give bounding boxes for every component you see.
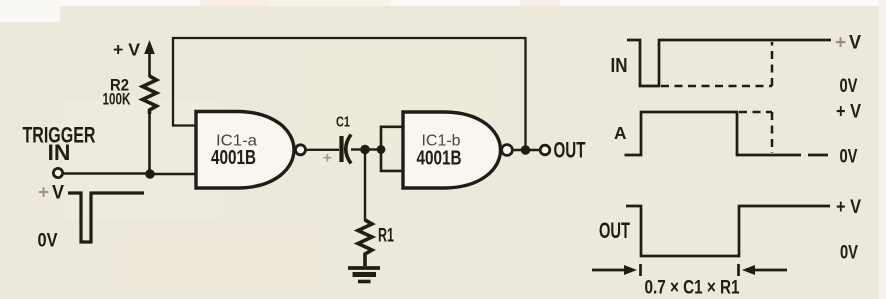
svg-text:0V: 0V [840,75,858,97]
wire node A down to R1 [364,150,366,222]
wire trigger terminal to junction [63,172,150,174]
wire R2 bottom to trigger junction [148,113,151,174]
OUT terminal [540,145,550,155]
output junction node [521,145,531,155]
wire C1 to node A [351,148,365,150]
svg-text:+ V: + V [113,40,140,60]
wire junction to IC1-a input B [150,173,196,175]
svg-text:+ V: + V [836,196,861,218]
+V supply arrow [144,40,155,77]
svg-text:0V: 0V [840,146,858,168]
OUT waveform trace [626,206,830,256]
svg-text:+: + [835,33,846,54]
capacitor C1 [342,135,352,164]
trigger input pulse waveform [68,193,144,242]
IN waveform dashed timing lines [661,42,772,86]
trigger junction node [145,169,155,179]
wire IC1-a output to C1 [306,149,339,151]
wire IC1-b input tie bracket [381,127,403,171]
svg-text:4001B: 4001B [211,147,256,169]
svg-text:+: + [323,150,332,167]
NOR gate IC1-b body [403,112,501,188]
A waveform dashed timing lines [739,112,772,153]
ground [348,268,380,282]
node on input tie [377,145,386,154]
svg-text:4001B: 4001B [417,148,462,170]
wire node A to IC1-b input tie [365,148,381,150]
svg-text:0.7 × C1 × R1: 0.7 × C1 × R1 [645,278,740,299]
svg-text:C1: C1 [336,115,350,131]
pulse width dimension right arrow [739,264,788,276]
svg-text:R1: R1 [378,226,394,247]
svg-text:100K: 100K [103,91,131,109]
pulse width dimension left arrow [592,264,641,276]
IN waveform trace [627,40,831,86]
wire IC1-b output to OUT terminal [513,149,541,151]
IC1-b output inversion bubble [502,145,513,156]
resistor R1 [358,220,372,266]
A waveform trace [625,112,829,155]
IC1-a output inversion bubble [296,145,306,155]
feedback wire from output node to IC1-a input A [173,38,526,150]
svg-text:A: A [614,123,627,143]
svg-text:OUT: OUT [599,218,630,243]
svg-text:OUT: OUT [554,138,586,163]
svg-text:IN: IN [48,140,71,165]
NOR gate IC1-a body [196,112,294,189]
svg-text:+ V: + V [836,101,861,123]
svg-text:V: V [52,183,64,204]
svg-text:V: V [849,33,861,54]
trigger IN terminal [53,168,62,177]
node A junction [360,145,370,155]
resistor R2 [143,76,157,114]
svg-text:IN: IN [611,55,628,77]
svg-text:0V: 0V [38,230,58,252]
svg-text:+: + [38,183,49,204]
svg-text:0V: 0V [840,242,858,264]
